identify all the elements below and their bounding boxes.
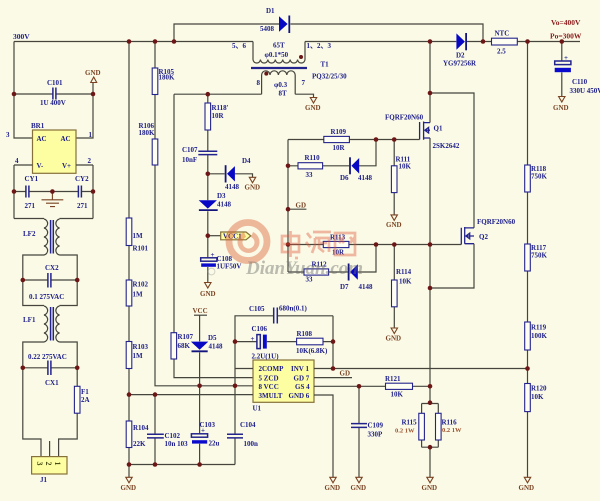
svg-text:1M: 1M <box>133 232 144 240</box>
svg-text:R107: R107 <box>178 333 194 341</box>
svg-text:8 VCC: 8 VCC <box>259 383 279 391</box>
svg-text:YG97256R: YG97256R <box>443 60 477 68</box>
capacitor C106 <box>251 335 267 349</box>
wire GD pin stub <box>314 377 352 379</box>
wire ZCD rail x174 <box>174 94 253 377</box>
svg-text:1M: 1M <box>133 291 144 299</box>
svg-text:4148: 4148 <box>225 183 240 191</box>
svg-text:22u: 22u <box>209 440 220 448</box>
svg-text:LF1: LF1 <box>23 316 36 324</box>
svg-text:V+: V+ <box>62 162 71 170</box>
resistor R102 <box>126 280 132 306</box>
label C102 <box>165 432 189 448</box>
svg-text:4148: 4148 <box>209 343 224 351</box>
svg-text:D1: D1 <box>266 7 275 15</box>
wire CX1 row <box>23 367 77 369</box>
label D3 <box>217 192 232 209</box>
svg-text:D2: D2 <box>456 52 465 60</box>
svg-text:R119: R119 <box>531 324 547 332</box>
svg-text:GND: GND <box>386 221 402 229</box>
svg-text:R114: R114 <box>396 268 412 276</box>
svg-text:4148: 4148 <box>359 283 374 291</box>
resistor R120 <box>525 384 547 412</box>
wire MULT row <box>129 394 253 396</box>
svg-text:R101: R101 <box>133 245 149 253</box>
diode D7 <box>349 264 358 281</box>
svg-text:2.5: 2.5 <box>497 48 506 56</box>
wire Q2 source <box>430 244 474 288</box>
svg-text:GND 6: GND 6 <box>289 392 310 400</box>
ground GND R114 <box>386 328 402 343</box>
wire C105 row <box>235 316 333 369</box>
svg-text:GND: GND <box>519 484 535 492</box>
svg-text:330U 450V: 330U 450V <box>570 87 600 95</box>
svg-text:180K: 180K <box>139 129 156 137</box>
capacitor C108 <box>201 251 217 267</box>
ground GND U1 <box>325 477 341 492</box>
transformer T1 secondary <box>262 71 296 94</box>
svg-text:10R: 10R <box>333 144 346 152</box>
wire CX2 row <box>23 279 77 281</box>
resistor R118 <box>525 165 548 192</box>
svg-text:FQRF20N60: FQRF20N60 <box>477 218 516 226</box>
wire CY row <box>14 191 93 193</box>
resistor R105 <box>152 68 158 95</box>
wire feedback chain x527 <box>527 42 529 478</box>
svg-text:D6: D6 <box>340 174 349 182</box>
inductor LF1 <box>23 280 77 368</box>
diode D1 <box>279 16 289 34</box>
resistor R117 <box>525 244 548 271</box>
svg-text:VCC: VCC <box>193 307 208 315</box>
svg-text:D4: D4 <box>242 157 251 165</box>
svg-text:2: 2 <box>88 157 92 165</box>
svg-text:R121: R121 <box>385 375 401 383</box>
svg-text:8T: 8T <box>279 90 288 98</box>
svg-text:750K: 750K <box>531 252 548 260</box>
svg-text:C110: C110 <box>572 78 588 86</box>
bridge BR1 box <box>33 130 77 173</box>
U1 pin names <box>259 365 311 400</box>
wire R113 row <box>288 244 461 246</box>
svg-text:GND: GND <box>85 69 101 77</box>
capacitor C104 <box>227 369 243 465</box>
svg-text:DianYuan.com: DianYuan.com <box>245 258 363 279</box>
svg-text:NTC: NTC <box>495 30 510 38</box>
svg-text:65T: 65T <box>273 42 285 50</box>
wire R110 D6 row <box>288 140 376 166</box>
svg-text:2: 2 <box>44 462 53 466</box>
svg-text:J1: J1 <box>40 476 48 484</box>
label C104 <box>240 421 258 448</box>
ground GND bottom left <box>121 477 137 492</box>
svg-text:C107: C107 <box>182 146 198 154</box>
ground GND R111 <box>386 215 402 229</box>
ground GND C110 <box>553 97 569 113</box>
connector J1 <box>32 457 67 474</box>
svg-text:AC: AC <box>61 135 71 143</box>
inductor LF2 <box>14 219 93 281</box>
wire Q1 drain <box>429 42 431 123</box>
net label VCC <box>193 307 208 315</box>
svg-text:R116: R116 <box>442 419 458 427</box>
wire BR1 pin4 / pin2 <box>14 165 93 219</box>
svg-text:68K: 68K <box>178 342 191 350</box>
svg-text:GND: GND <box>553 104 569 112</box>
svg-text:1M: 1M <box>133 352 144 360</box>
resistor R104 <box>126 421 132 448</box>
svg-text:R108: R108 <box>297 330 313 338</box>
svg-text:D5: D5 <box>208 334 217 342</box>
thermistor NTC <box>492 30 518 56</box>
diode D5 <box>191 342 208 352</box>
svg-text:CX1: CX1 <box>45 379 59 387</box>
svg-text:R110: R110 <box>305 154 321 162</box>
svg-text:10n 103: 10n 103 <box>165 440 189 448</box>
svg-text:+: + <box>564 54 568 62</box>
svg-text:C105: C105 <box>249 305 265 313</box>
svg-text:F1: F1 <box>81 388 89 396</box>
diode D2 <box>456 33 466 50</box>
svg-text:0.1 275VAC: 0.1 275VAC <box>29 293 64 301</box>
svg-text:GND: GND <box>386 335 402 343</box>
svg-text:3MULT: 3MULT <box>259 392 283 400</box>
wire Q1 source down <box>429 138 431 403</box>
svg-text:100K: 100K <box>531 332 548 340</box>
capacitor CY2 <box>78 186 81 198</box>
svg-text:4148: 4148 <box>217 201 232 209</box>
wire R109 row <box>288 139 420 141</box>
BR1 pin numbers <box>6 131 93 165</box>
ground GND top (up arrow) <box>85 69 101 83</box>
svg-text:4148: 4148 <box>358 174 373 182</box>
label Vo Po <box>550 18 582 41</box>
svg-text:GND: GND <box>351 484 367 492</box>
resistor R118' <box>205 103 211 130</box>
resistor R112 <box>304 261 329 284</box>
label R107 <box>178 333 194 350</box>
label R104 <box>133 424 149 448</box>
mosfet Q2 <box>461 227 474 245</box>
svg-text:750K: 750K <box>531 173 548 181</box>
svg-text:0.2 1W: 0.2 1W <box>395 428 415 435</box>
wire VCC D5 column <box>199 315 201 464</box>
wire 300V top rail <box>14 41 253 43</box>
svg-text:R109: R109 <box>331 128 347 136</box>
capacitor CX2 <box>48 273 51 288</box>
wire output rail <box>305 41 580 43</box>
svg-text:1、2、3: 1、2、3 <box>307 42 332 50</box>
wire divider rail x129 <box>128 42 130 465</box>
svg-text:8: 8 <box>257 79 261 87</box>
mosfet Q1 <box>420 122 430 140</box>
svg-text:10K: 10K <box>531 393 544 401</box>
label R115 <box>395 419 417 435</box>
resistor R113 <box>323 234 349 257</box>
svg-text:GD 7: GD 7 <box>294 374 310 382</box>
label R106 <box>139 122 156 137</box>
resistor R110 <box>298 154 323 179</box>
svg-text:2COMP: 2COMP <box>259 365 285 373</box>
svg-text:C102: C102 <box>165 432 181 440</box>
svg-text:271: 271 <box>77 202 88 210</box>
capacitor CY1 <box>26 186 29 198</box>
svg-text:3: 3 <box>6 131 10 139</box>
svg-text:CY1: CY1 <box>25 175 39 183</box>
svg-text:Po=300W: Po=300W <box>550 32 582 41</box>
svg-text:GS 4: GS 4 <box>295 383 310 391</box>
capacitor C103 <box>191 427 207 444</box>
label D5 <box>208 334 223 351</box>
label D2 <box>443 52 477 68</box>
svg-text:33: 33 <box>306 171 314 179</box>
svg-text:0.22 275VAC: 0.22 275VAC <box>28 353 67 361</box>
wire D4 branch <box>208 174 253 178</box>
diode D3 <box>199 200 218 210</box>
label C103 <box>200 421 220 448</box>
svg-text:C104: C104 <box>240 421 256 429</box>
svg-text:V-: V- <box>37 162 45 170</box>
svg-text:GD: GD <box>296 202 307 210</box>
ground GND C109 <box>351 477 367 492</box>
svg-text:AC: AC <box>37 135 47 143</box>
wire startup rail x155 <box>155 42 253 386</box>
svg-text:φ0.3: φ0.3 <box>274 81 288 89</box>
capacitor C110 <box>555 42 571 97</box>
svg-text:4: 4 <box>15 157 19 165</box>
wire R112 D7 row <box>288 245 376 273</box>
svg-text:GND: GND <box>422 484 438 492</box>
svg-text:10K: 10K <box>391 391 404 399</box>
svg-text:GND: GND <box>305 104 321 112</box>
resistor R103 <box>126 342 132 369</box>
label D6 <box>340 174 373 182</box>
label C107 <box>182 146 198 164</box>
svg-text:2.2U(1U): 2.2U(1U) <box>252 353 280 361</box>
resistor R121 <box>385 375 413 399</box>
svg-text:φ0.1*50: φ0.1*50 <box>265 51 289 59</box>
IC U1 box <box>253 360 314 402</box>
transformer T1 primary <box>253 42 305 64</box>
earth ground symbol <box>42 192 64 207</box>
ground GND chain <box>519 477 535 492</box>
resistor R119 <box>525 322 548 350</box>
svg-text:5408: 5408 <box>260 25 275 33</box>
resistor pair R115 R116 <box>419 404 441 478</box>
diode D6 <box>350 157 359 174</box>
wire aux winding node y94 <box>174 94 314 97</box>
svg-text:GND: GND <box>200 290 216 298</box>
wire C106 R108 row <box>235 342 333 369</box>
ground GND secondary <box>305 98 321 113</box>
svg-text:10nF: 10nF <box>182 156 197 164</box>
T1 polarity dots <box>264 55 303 76</box>
svg-text:330P: 330P <box>368 431 384 439</box>
svg-text:271: 271 <box>25 202 36 210</box>
svg-text:R102: R102 <box>133 281 149 289</box>
watermark logo <box>208 223 267 275</box>
BR1 pin names <box>37 135 72 170</box>
svg-text:GND: GND <box>245 184 261 192</box>
ground GND D4 <box>245 177 261 191</box>
svg-text:2SK2642: 2SK2642 <box>433 142 460 150</box>
svg-text:D7: D7 <box>340 283 349 291</box>
svg-text:CY2: CY2 <box>75 175 89 183</box>
svg-text:10K(6.8K): 10K(6.8K) <box>296 347 328 355</box>
label R116 <box>442 419 463 435</box>
svg-text:5、6: 5、6 <box>232 42 246 50</box>
resistor R108 <box>296 330 328 355</box>
resistor R106 <box>152 139 158 165</box>
capacitor C102 <box>147 395 164 465</box>
capacitor CX1 <box>48 361 51 376</box>
svg-text:2A: 2A <box>81 396 90 404</box>
wire D1 branch <box>174 24 483 42</box>
svg-text:GND: GND <box>121 484 137 492</box>
svg-text:T1: T1 <box>321 61 330 69</box>
svg-text:1UF50V: 1UF50V <box>217 263 242 271</box>
svg-text:D3: D3 <box>217 192 226 200</box>
wire GND pin6 <box>314 395 333 477</box>
capacitor C107 <box>198 151 217 154</box>
svg-text:10K: 10K <box>399 278 412 286</box>
label R102 <box>133 281 149 299</box>
svg-text:10K: 10K <box>399 163 412 171</box>
wire COMP pin <box>235 368 253 370</box>
svg-text:U1: U1 <box>253 405 262 413</box>
svg-text:R118': R118' <box>212 104 229 112</box>
svg-text:LF2: LF2 <box>23 230 36 238</box>
label R118' <box>212 104 229 120</box>
resistor R109 <box>324 128 350 152</box>
label C109 <box>368 422 384 439</box>
svg-text:GND: GND <box>325 484 341 492</box>
svg-text:GD: GD <box>340 370 351 378</box>
svg-text:C109: C109 <box>368 422 384 430</box>
svg-text:INV 1: INV 1 <box>291 365 309 373</box>
wire bottom ground rail <box>129 465 235 478</box>
ground GND R115 <box>422 477 438 492</box>
wire gate drive column x288 <box>288 140 306 273</box>
transformer T1 core <box>251 67 307 69</box>
svg-text:Vo=400V: Vo=400V <box>551 18 581 27</box>
wire R118p column <box>207 94 209 282</box>
capacitor C101 <box>53 88 56 100</box>
label R105 <box>159 68 176 82</box>
svg-text:R115: R115 <box>402 419 418 427</box>
svg-text:1: 1 <box>53 462 62 466</box>
resistor R114 <box>392 245 413 328</box>
ground GND C108 <box>200 283 216 299</box>
svg-text:R120: R120 <box>531 385 547 393</box>
label D7 <box>340 283 373 291</box>
resistor R101 <box>126 218 132 246</box>
capacitor C105 <box>274 308 278 324</box>
svg-text:1: 1 <box>89 131 93 139</box>
wire INV row feedback <box>314 368 528 370</box>
svg-text:R104: R104 <box>133 424 149 432</box>
label R101 <box>133 232 149 253</box>
wire left rail upper <box>14 42 93 139</box>
fuse F1 <box>50 368 80 457</box>
svg-text:680n(0.1): 680n(0.1) <box>279 305 307 313</box>
svg-text:100n: 100n <box>244 440 259 448</box>
svg-text:+: + <box>211 251 215 259</box>
svg-text:1U 400V: 1U 400V <box>40 99 66 107</box>
diode D4 <box>226 165 235 182</box>
capacitor C109 <box>351 386 367 477</box>
svg-text:C103: C103 <box>200 421 216 429</box>
svg-text:7: 7 <box>302 79 306 87</box>
svg-text:10R: 10R <box>212 112 225 120</box>
svg-text:Q2: Q2 <box>479 233 488 241</box>
resistor R111 <box>391 140 411 215</box>
svg-text:R103: R103 <box>133 343 149 351</box>
svg-text:5 ZCD: 5 ZCD <box>259 374 279 382</box>
svg-text:BR1: BR1 <box>31 122 45 130</box>
flag VCC1 <box>208 232 251 241</box>
svg-text:3: 3 <box>35 462 44 466</box>
wire GS R121 row <box>314 385 430 387</box>
svg-text:+: + <box>251 335 255 343</box>
label C110 <box>570 78 600 95</box>
svg-text:FQRF20N60: FQRF20N60 <box>385 114 424 122</box>
resistor R107 <box>171 333 177 359</box>
wire Q2 drain to Q1 <box>430 93 474 228</box>
svg-text:180K: 180K <box>159 74 176 82</box>
svg-text:CX2: CX2 <box>45 264 59 272</box>
label C108 <box>217 255 242 271</box>
label R103 <box>133 343 149 360</box>
svg-text:0.2 1W: 0.2 1W <box>442 427 462 434</box>
T1 pin labels <box>232 42 331 87</box>
wire to J1 left <box>23 368 41 457</box>
svg-text:PQ32/25/30: PQ32/25/30 <box>312 73 347 81</box>
svg-text:Q1: Q1 <box>434 125 443 133</box>
svg-text:22K: 22K <box>133 440 146 448</box>
svg-text:C101: C101 <box>47 79 63 87</box>
svg-text:C106: C106 <box>252 325 268 333</box>
svg-text:300V: 300V <box>13 32 30 41</box>
